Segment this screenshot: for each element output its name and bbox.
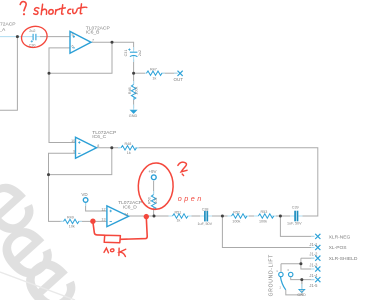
svg-text:5: 5 bbox=[72, 33, 74, 37]
svg-text:10k: 10k bbox=[69, 225, 75, 229]
svg-text:1k: 1k bbox=[127, 151, 131, 155]
svg-text:OUT: OUT bbox=[174, 77, 184, 82]
wire +9V to R50 bbox=[153, 181, 155, 194]
wire R48 to C39 right (long detour) bbox=[136, 148, 318, 216]
svg-text:IC6_A: IC6_A bbox=[0, 27, 6, 33]
svg-text:J1-5: J1-5 bbox=[309, 283, 318, 288]
wire VD to IC6_D pin12 bbox=[86, 203, 107, 211]
node junction IC6_D output / R50 bbox=[153, 215, 156, 218]
wire R52 to R53 bbox=[245, 215, 258, 217]
svg-text:1uF, 50V: 1uF, 50V bbox=[198, 222, 213, 226]
wire node down to R46 bbox=[133, 73, 135, 84]
wire R47 to OUT port bbox=[162, 72, 177, 74]
svg-text:14: 14 bbox=[124, 212, 128, 216]
supply VD bbox=[83, 198, 88, 203]
svg-text:R48: R48 bbox=[125, 142, 132, 146]
wire port stubs J1 bbox=[311, 235, 315, 237]
wire C38 stubs bbox=[200, 215, 204, 217]
wire R48 stubs bbox=[118, 147, 121, 149]
node junction shield bracket bbox=[299, 262, 302, 265]
annotation wire from box to output dot bbox=[120, 218, 147, 240]
wire input net to IC6_B pin5 (pale segment) bbox=[40, 36, 70, 38]
resistor R48 bbox=[121, 146, 137, 150]
wire IC6_B output bbox=[91, 42, 134, 50]
svg-text:+9V: +9V bbox=[148, 169, 156, 174]
annotation dot on output wire bbox=[144, 214, 149, 219]
svg-text:R49: R49 bbox=[67, 215, 74, 219]
svg-text:XL-POS: XL-POS bbox=[329, 245, 348, 251]
node junction R53 / J1-1 bbox=[279, 215, 282, 218]
svg-text:R47: R47 bbox=[150, 68, 157, 72]
wire R46 stubs bbox=[133, 81, 135, 85]
port OUT (X) bbox=[178, 71, 183, 76]
port J1-2 (X) bbox=[315, 245, 320, 250]
wire IC6_C pin9 bbox=[49, 153, 76, 221]
wire IC6_B feedback loop bbox=[49, 42, 112, 73]
capacitor C39 (polarized, 1uF 50V) bbox=[295, 211, 297, 222]
svg-text:2u2: 2u2 bbox=[138, 50, 142, 56]
wire C31 stubs bbox=[133, 47, 135, 52]
wire node down to XL-POS / J1-2 bbox=[222, 216, 314, 248]
wire IC6_D output to R51 bbox=[129, 215, 172, 217]
svg-text:2u2: 2u2 bbox=[29, 29, 35, 33]
wire switch lever to J1-5 node bbox=[286, 280, 302, 295]
svg-text:open: open bbox=[178, 194, 204, 203]
watermark faint diagonal line bbox=[0, 272, 75, 300]
wire R49 stubs bbox=[61, 220, 64, 222]
svg-text:IC6_B: IC6_B bbox=[86, 30, 100, 36]
wire switch left contact stub bbox=[280, 264, 282, 272]
svg-text:C31: C31 bbox=[124, 50, 128, 57]
wire IC6_C output to R48 bbox=[97, 147, 121, 149]
svg-text:8: 8 bbox=[97, 144, 99, 148]
svg-text:9: 9 bbox=[73, 150, 75, 154]
annotation word shortcut bbox=[34, 4, 87, 15]
ground GND2 (open triangle) bbox=[299, 289, 305, 292]
wire switch common to shield node bbox=[281, 263, 301, 265]
svg-text:7: 7 bbox=[92, 38, 94, 42]
capacitor C38 (polarized, 1uF 50V) bbox=[205, 211, 207, 222]
wire R51 stubs bbox=[169, 215, 173, 217]
svg-text:VD: VD bbox=[81, 192, 88, 197]
svg-text:R50: R50 bbox=[147, 197, 151, 204]
wire VD stub bbox=[85, 203, 87, 207]
wire node to R47 bbox=[134, 72, 145, 74]
wire GND2 stub bbox=[301, 284, 303, 289]
svg-text:10k: 10k bbox=[154, 197, 158, 203]
wire R51 to C38 bbox=[189, 215, 204, 217]
wire J1-3 pin bbox=[301, 257, 314, 259]
supply +9V bbox=[151, 175, 156, 180]
svg-text:GROUND-LIFT: GROUND-LIFT bbox=[269, 254, 275, 296]
annotation question mark bbox=[20, 2, 26, 11]
wire R47 stubs bbox=[145, 72, 147, 74]
annotation squiggle 2 bbox=[178, 162, 187, 172]
svg-text:GND: GND bbox=[129, 114, 138, 118]
svg-text:10: 10 bbox=[71, 139, 75, 143]
wire OUT port stub bbox=[174, 72, 178, 74]
wire node down to XLR-NEG / J1-1 bbox=[280, 216, 314, 236]
svg-text:R46: R46 bbox=[128, 87, 132, 94]
wire GND1 stub bbox=[133, 105, 135, 110]
svg-text:R51: R51 bbox=[175, 211, 182, 215]
node junction IC6_B output bbox=[111, 41, 114, 44]
svg-text:XLR-SHIELD: XLR-SHIELD bbox=[329, 256, 358, 262]
wire R50 stubs bbox=[153, 191, 155, 195]
svg-text:IC6_C: IC6_C bbox=[92, 134, 106, 140]
svg-text:100k: 100k bbox=[259, 220, 267, 224]
wire C31 to R47/R46 node bbox=[133, 60, 135, 74]
svg-text:J1-3: J1-3 bbox=[309, 263, 318, 268]
capacitor C31 (2u2, series at IC6_B output) bbox=[128, 48, 137, 56]
resistor R46 (vertical) bbox=[131, 85, 135, 100]
annotation hand-drawn resistor wire bbox=[93, 222, 105, 235]
wire J1-5 node to GND stub bbox=[301, 280, 303, 289]
node junction J1-5 / GND bbox=[300, 278, 303, 281]
wire right contact to J1-5 node bbox=[291, 277, 315, 279]
svg-text:R53: R53 bbox=[261, 210, 268, 214]
node junction IC6_C output bbox=[110, 146, 113, 149]
resistor R49 bbox=[64, 219, 80, 223]
svg-text:C39: C39 bbox=[292, 206, 299, 210]
annotation hand-drawn resistor box bbox=[104, 235, 120, 242]
resistor R53 bbox=[258, 214, 274, 218]
port J1-5 (X) bbox=[315, 277, 320, 282]
wire R49 to IC6_D pin13 bbox=[80, 220, 107, 222]
wire R53 stubs bbox=[254, 215, 259, 217]
wire R53 to C39 bbox=[272, 215, 294, 217]
svg-text:GND: GND bbox=[297, 293, 306, 297]
watermark logo letters bottom-left bbox=[0, 150, 97, 300]
resistor R50 (vertical) bbox=[151, 195, 155, 210]
wire C39 stubs bbox=[290, 215, 295, 217]
annotation word 10k handwritten bbox=[104, 248, 126, 256]
node junction input/feedback bbox=[16, 35, 19, 38]
op-amp IC6_B bbox=[70, 31, 91, 53]
op-amp IC6_D bbox=[107, 206, 129, 227]
wire input net pale bbox=[0, 36, 33, 38]
port J1-4 (X) bbox=[315, 266, 320, 271]
wire C38 to R52 bbox=[208, 215, 231, 217]
svg-text:J1-2: J1-2 bbox=[309, 251, 318, 256]
svg-text:1uF, 50V: 1uF, 50V bbox=[287, 222, 302, 226]
node junction IC6_C pin9 feedback bbox=[47, 173, 50, 176]
svg-text:100k: 100k bbox=[232, 219, 240, 223]
node junction IC6_B pin6 feedback bbox=[48, 72, 51, 75]
svg-text:C38: C38 bbox=[202, 207, 209, 211]
svg-text:J1-1: J1-1 bbox=[309, 242, 318, 247]
resistor R51 bbox=[173, 214, 189, 218]
pale cyan wire segments bbox=[0, 37, 315, 289]
svg-text:1k: 1k bbox=[177, 219, 181, 223]
resistor R52 bbox=[232, 214, 248, 218]
svg-text:13: 13 bbox=[101, 217, 105, 221]
port J1-1 (X) bbox=[315, 234, 320, 239]
wire R52 stubs bbox=[228, 215, 232, 217]
op-amp IC6_C bbox=[76, 137, 97, 158]
wire bracket J1-3 to J1-4 bbox=[301, 258, 314, 269]
annotation circle around +9V/R50 bbox=[138, 162, 174, 210]
wire R50 to output node bbox=[153, 207, 155, 216]
annotation dot on pin13 wire bbox=[90, 219, 95, 224]
svg-text:J1-4: J1-4 bbox=[309, 273, 318, 278]
wire IC6_C feedback bbox=[49, 148, 112, 175]
resistor R47 bbox=[147, 71, 163, 75]
switch lever bbox=[281, 277, 286, 290]
svg-text:IC6_D: IC6_D bbox=[123, 204, 137, 210]
node junction C38 / J1-2 bbox=[221, 215, 224, 218]
capacitor C30 (2u2, input) bbox=[31, 34, 36, 43]
svg-text:R52: R52 bbox=[233, 211, 240, 215]
port J1-3 (X) bbox=[315, 256, 320, 261]
svg-text:1k: 1k bbox=[152, 77, 156, 81]
ground GND1 bbox=[130, 110, 137, 113]
node junction C31/R47/R46 bbox=[132, 72, 135, 75]
wire R46 to GND bbox=[133, 97, 135, 108]
switch S (ground-lift) contacts bbox=[279, 272, 293, 290]
svg-text:TL072ACP: TL072ACP bbox=[0, 22, 16, 28]
wire IC6_B pin6 bbox=[49, 48, 76, 143]
svg-text:XLR-NEG: XLR-NEG bbox=[329, 234, 351, 240]
svg-text:100k: 100k bbox=[135, 87, 139, 95]
svg-text:12: 12 bbox=[101, 207, 105, 211]
annotation circle around C30 bbox=[19, 24, 49, 50]
wire feedback IC6_A: junction down and left off-screen bbox=[0, 37, 17, 111]
svg-text:6: 6 bbox=[72, 44, 74, 48]
